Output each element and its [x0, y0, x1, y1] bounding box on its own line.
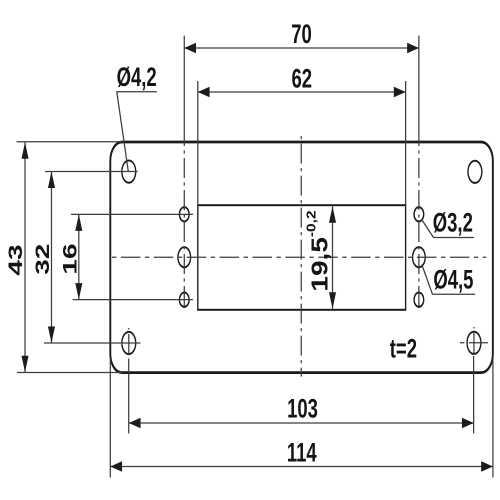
svg-text:43: 43: [5, 244, 26, 275]
svg-text:103: 103: [287, 393, 318, 423]
svg-text:Ø4,2: Ø4,2: [117, 61, 157, 91]
svg-text:114: 114: [287, 437, 317, 467]
svg-text:62: 62: [291, 63, 312, 93]
svg-text:32: 32: [32, 244, 53, 275]
svg-text:Ø3,2: Ø3,2: [433, 207, 473, 237]
svg-text:70: 70: [291, 18, 312, 48]
svg-text:t=2: t=2: [390, 333, 417, 363]
svg-text:16: 16: [60, 243, 81, 274]
svg-text:19,5-0,2: 19,5-0,2: [304, 210, 333, 291]
svg-text:Ø4,5: Ø4,5: [433, 264, 473, 294]
